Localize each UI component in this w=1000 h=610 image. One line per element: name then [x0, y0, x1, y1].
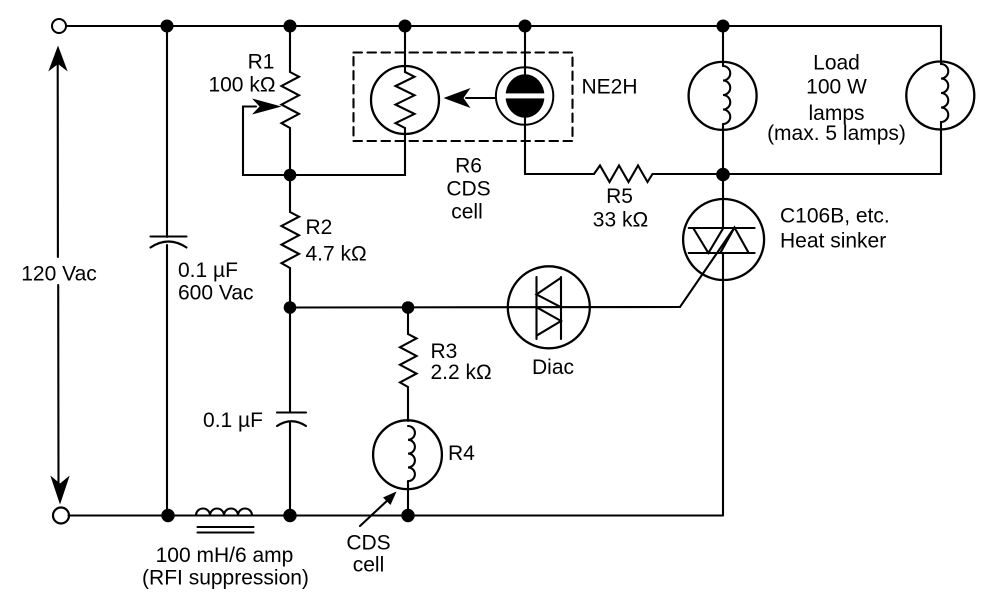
- node bottom rail x167: [161, 509, 174, 522]
- node R3 top: [402, 301, 415, 314]
- svg-text:0.1 µF: 0.1 µF: [203, 409, 263, 432]
- wire mid rail to diac and gate wire: [290, 228, 735, 308]
- diac bottom triangle: [537, 307, 562, 336]
- inductor core lines: [198, 526, 254, 528]
- capacitor C2 0.1uF: [277, 411, 306, 413]
- wire right edge upper: [940, 26, 942, 64]
- lamp LP1 filament: [723, 66, 730, 124]
- wire lamp1 top: [722, 26, 724, 66]
- wire R6 top: [404, 26, 406, 72]
- source arrow up: [48, 46, 67, 72]
- svg-text:100 kΩ: 100 kΩ: [208, 74, 275, 97]
- svg-text:4.7 kΩ: 4.7 kΩ: [306, 243, 367, 266]
- resistor R2 4.7k: [289, 175, 291, 212]
- svg-text:100 W: 100 W: [806, 76, 867, 99]
- svg-text:NE2H: NE2H: [582, 76, 638, 99]
- wire cap1 lower: [166, 245, 168, 516]
- svg-text:Heat sinker: Heat sinker: [780, 230, 886, 253]
- svg-text:Diac: Diac: [532, 356, 574, 379]
- wire top rail: [66, 25, 941, 27]
- wire NE2H bottom: [524, 102, 526, 174]
- dashed box: [354, 53, 573, 142]
- source arrow down: [50, 476, 69, 505]
- terminal bottom-left: [53, 508, 69, 524]
- svg-text:100 mH/6 amp: 100 mH/6 amp: [156, 544, 294, 567]
- triac Q1 wire top: [722, 174, 724, 228]
- svg-text:CDS: CDS: [346, 532, 390, 555]
- svg-text:33 kΩ: 33 kΩ: [593, 209, 648, 232]
- node R1 bottom junction: [284, 169, 297, 182]
- node triac top: [716, 168, 730, 182]
- R6 zigzag: [396, 72, 415, 128]
- wire junction to R6 bottom: [290, 135, 405, 175]
- svg-text:R6: R6: [455, 155, 482, 178]
- NE2H arrow: [466, 97, 495, 99]
- svg-text:120 Vac: 120 Vac: [21, 263, 97, 286]
- lamp LP1 circle: [689, 62, 757, 130]
- wire R4 bottom: [407, 489, 409, 516]
- triac Q1 circle: [683, 199, 764, 280]
- svg-text:0.1 µF: 0.1 µF: [178, 259, 238, 282]
- wire cap2 lower: [289, 423, 291, 516]
- triac right triangle: [720, 228, 748, 254]
- neon lamp NE2H envelope: [496, 67, 553, 124]
- svg-text:Load: Load: [813, 52, 860, 75]
- triac top bar: [689, 227, 755, 229]
- node bottom rail x290: [283, 509, 296, 522]
- svg-text:(RFI suppression): (RFI suppression): [142, 567, 309, 590]
- CDS pointer arrow: [360, 498, 390, 526]
- R1 wiper arrow: [252, 99, 282, 115]
- node top rail x167: [161, 20, 174, 33]
- node top rail x290: [284, 20, 297, 33]
- wire NE2H top: [524, 26, 526, 90]
- svg-text:CDS: CDS: [446, 178, 490, 201]
- node mid rail left: [284, 301, 297, 314]
- node top rail x525: [519, 20, 532, 33]
- wire wiper: [243, 107, 290, 176]
- wire bottom rail: [69, 514, 724, 516]
- svg-text:R1: R1: [248, 51, 275, 74]
- svg-text:R4: R4: [448, 442, 475, 465]
- wire source shaft: [57, 63, 59, 257]
- R4 filament coil: [408, 426, 415, 481]
- svg-text:R5: R5: [606, 185, 633, 208]
- wire lamp1 bottom: [722, 124, 724, 174]
- lamp LP2 filament: [941, 64, 948, 122]
- resistor R3 2.2k: [407, 308, 409, 335]
- wire R1 top: [289, 26, 291, 72]
- wire cap1 upper: [166, 26, 168, 237]
- triac left triangle: [693, 228, 723, 253]
- node top rail x405: [399, 20, 412, 33]
- neon lamp NE2H body: [506, 74, 545, 118]
- lamp LP2 circle: [906, 62, 974, 130]
- diac top triangle: [537, 278, 562, 308]
- svg-text:2.2 kΩ: 2.2 kΩ: [431, 361, 492, 384]
- svg-text:cell: cell: [353, 554, 385, 577]
- diac D1 circle: [508, 266, 590, 348]
- diac left bar: [535, 277, 537, 339]
- node top rail x723: [717, 20, 730, 33]
- wire cap2 upper: [289, 308, 291, 413]
- node bottom rail x408: [401, 509, 414, 522]
- svg-text:C106B, etc.: C106B, etc.: [780, 205, 890, 228]
- resistor R5 33k: [525, 166, 723, 183]
- photocell R6 circle: [371, 66, 439, 134]
- svg-text:R2: R2: [306, 216, 333, 239]
- triac bottom bar: [689, 252, 755, 254]
- photocell R4 circle: [373, 420, 442, 489]
- svg-text:600 Vac: 600 Vac: [178, 282, 254, 305]
- diac right bar: [560, 277, 562, 339]
- resistor R1 100k zigzag: [282, 72, 300, 128]
- terminal top-left: [52, 19, 66, 33]
- svg-text:R3: R3: [431, 340, 458, 363]
- wire triac bottom: [722, 253, 724, 516]
- svg-text:(max. 5 lamps): (max. 5 lamps): [767, 122, 906, 145]
- capacitor C1 0.1uF 600Vac: [151, 235, 187, 237]
- wire R1 bottom: [289, 128, 291, 175]
- wire right edge lower: [723, 122, 941, 174]
- inductor L1 100mH humps: [196, 509, 252, 516]
- svg-text:cell: cell: [451, 201, 483, 224]
